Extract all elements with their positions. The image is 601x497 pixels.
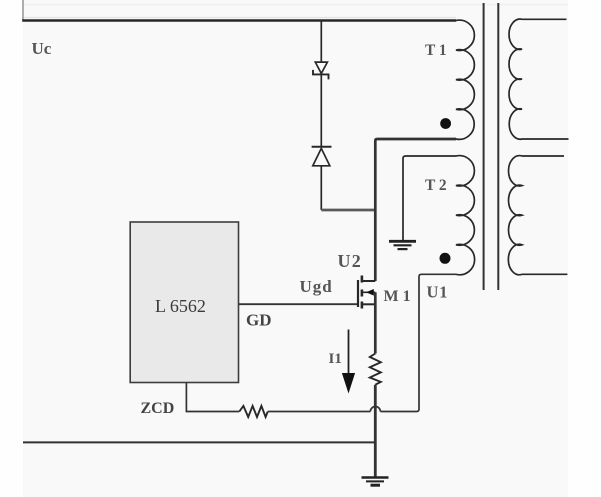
ground (bottom) (362, 478, 389, 486)
wire between diodes (320, 74, 322, 146)
wire T2 secondary top lead (522, 155, 564, 157)
wire diode branch lower segment (320, 166, 322, 210)
svg-text:M 1: M 1 (384, 288, 411, 305)
ground (T2) (389, 241, 416, 249)
svg-text:Uc: Uc (32, 39, 52, 58)
wire T1 secondary bottom lead (522, 138, 569, 140)
svg-text:I1: I1 (329, 351, 342, 367)
diode D2 (312, 147, 332, 166)
svg-text:L 6562: L 6562 (155, 296, 206, 316)
wire top-left stub (22, 0, 24, 21)
wire GD gate drive (239, 303, 358, 305)
resistor R2 (ZCD series) (239, 406, 267, 417)
polarity dot T2 (440, 253, 451, 264)
wire Uc top rail (22, 19, 456, 22)
wire ZCD resistor to hump (268, 411, 371, 413)
wire T2 secondary bottom lead (522, 273, 567, 275)
wire T1 primary bottom to drain (375, 139, 456, 281)
ic U3 L6562 (130, 222, 238, 383)
svg-text:T 1: T 1 (425, 42, 447, 59)
transformer T2 secondary winding (508, 156, 522, 275)
svg-text:GD: GD (246, 311, 272, 330)
polarity dot T1 (440, 118, 451, 129)
wire source vertical (374, 292, 377, 353)
svg-text:Ugd: Ugd (300, 277, 333, 296)
svg-text:U1: U1 (427, 283, 449, 302)
scan top edge (23, 4, 568, 6)
svg-text:U2: U2 (338, 251, 362, 271)
current arrow I1 (342, 330, 355, 394)
svg-text:ZCD: ZCD (141, 400, 175, 417)
wire resistor to ground (374, 385, 377, 478)
transformer T1 secondary winding (509, 19, 522, 139)
wire diode branch upper segment (320, 21, 322, 63)
wire ZCD pin down and right (186, 383, 239, 412)
wire bottom rail (23, 441, 375, 443)
mosfet M1 (358, 276, 375, 309)
transformer core (484, 3, 499, 290)
wire hump over source line (370, 407, 380, 412)
transformer T2 primary winding (456, 156, 475, 275)
wire T1 secondary top lead (522, 18, 567, 20)
scan halo above top rail (23, 17, 456, 19)
resistor R1 (source resistor) (370, 354, 381, 385)
wire U1 net to T2 (380, 274, 456, 411)
wire T2 primary top to ground (403, 156, 456, 241)
diode D1 (zener) (313, 62, 329, 79)
transformer T1 primary winding (456, 20, 474, 139)
svg-text:T 2: T 2 (425, 177, 447, 194)
wire connector diode branch to drain (321, 209, 375, 212)
